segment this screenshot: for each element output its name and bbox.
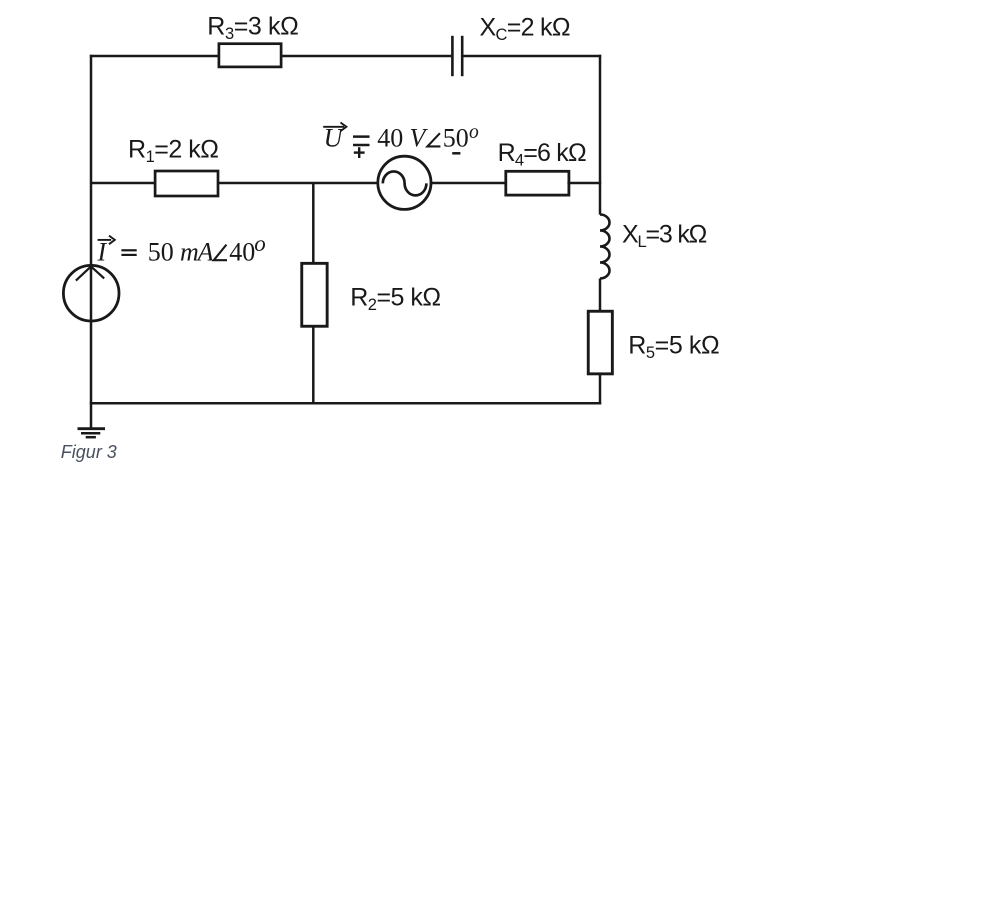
source U: sine symbol bbox=[383, 171, 427, 195]
svg-text:Figur 3: Figur 3 bbox=[61, 442, 117, 462]
wire: top left segment bbox=[90, 55, 219, 58]
svg-text:R2=5 kΩ: R2=5 kΩ bbox=[350, 284, 440, 315]
label I angle symbol bbox=[214, 245, 227, 261]
wire: right rail lower bbox=[599, 373, 602, 405]
resistor R5 bbox=[588, 311, 612, 374]
wire: R2 branch upper bbox=[312, 183, 315, 264]
svg-text:XC=2 kΩ: XC=2 kΩ bbox=[480, 13, 570, 44]
svg-text:R3=3 kΩ: R3=3 kΩ bbox=[207, 12, 298, 43]
svg-text:o: o bbox=[469, 122, 479, 143]
svg-text:R1=2 kΩ: R1=2 kΩ bbox=[128, 136, 218, 167]
svg-text:o: o bbox=[254, 231, 265, 256]
capacitor XC bbox=[452, 36, 462, 76]
source I: arrow barbs bbox=[76, 266, 104, 280]
source I: current source circle bbox=[63, 265, 119, 321]
resistor R4 bbox=[506, 171, 569, 195]
svg-text:R5=5 kΩ: R5=5 kΩ bbox=[628, 332, 719, 363]
label I vector arrow bbox=[98, 236, 115, 245]
svg-text:mA: mA bbox=[180, 237, 214, 266]
polarity plus bbox=[354, 147, 365, 158]
wire: middle row centre segment bbox=[218, 182, 378, 185]
resistor R3 bbox=[219, 44, 281, 67]
label U equals sign bbox=[353, 137, 370, 145]
label U vector arrow bbox=[323, 123, 346, 132]
label I equals sign bbox=[121, 250, 136, 255]
svg-text:40: 40 bbox=[229, 237, 255, 266]
polarity minus bbox=[452, 152, 460, 155]
wire: R2 branch lower bbox=[312, 325, 315, 405]
wire: top middle segment bbox=[281, 55, 451, 58]
wire: middle row right of source bbox=[432, 182, 506, 185]
source U: AC voltage source circle bbox=[378, 156, 431, 209]
wire: top right segment bbox=[463, 55, 601, 58]
wire: middle row to right rail bbox=[567, 182, 601, 185]
inductor XL bbox=[600, 215, 610, 279]
resistor R2 bbox=[302, 263, 327, 326]
wire: right rail between XL and R5 bbox=[599, 279, 602, 312]
resistor R1 bbox=[155, 171, 218, 196]
wire: bottom rail bbox=[90, 402, 601, 405]
svg-text:R4=6 kΩ: R4=6 kΩ bbox=[498, 139, 586, 170]
wire: left vertical rail bbox=[90, 55, 93, 429]
svg-text:50: 50 bbox=[443, 124, 469, 153]
ground bbox=[78, 429, 106, 438]
svg-text:XL=3 kΩ: XL=3 kΩ bbox=[622, 220, 707, 251]
svg-text:40: 40 bbox=[377, 124, 403, 153]
wire: middle row left segment bbox=[91, 182, 154, 185]
svg-text:U: U bbox=[324, 124, 345, 153]
wire: right rail upper bbox=[599, 55, 602, 215]
svg-text:I: I bbox=[97, 237, 108, 266]
label U angle symbol bbox=[427, 133, 440, 146]
svg-text:50: 50 bbox=[148, 237, 174, 266]
